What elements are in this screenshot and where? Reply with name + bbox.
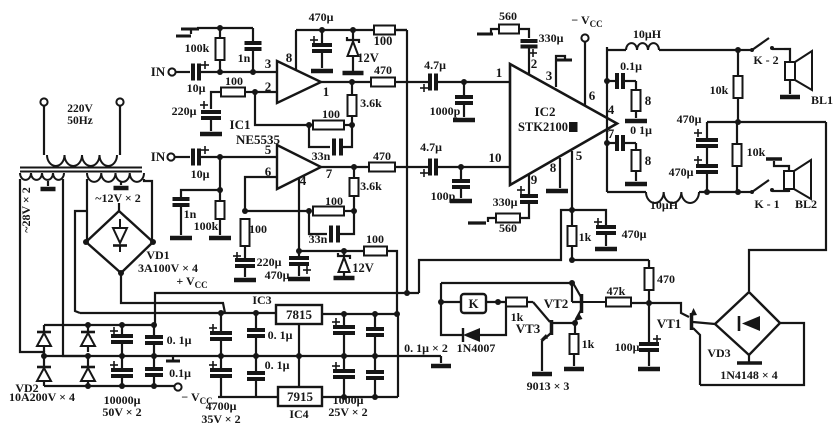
- rail VD2 plus: [44, 322, 157, 328]
- wire secondary1 center tap: [47, 181, 49, 186]
- svg-text:VT3: VT3: [516, 321, 541, 336]
- svg-text:3: 3: [265, 56, 272, 71]
- wire 10u2 to pin5: [201, 154, 277, 160]
- svg-text:1k: 1k: [579, 230, 592, 244]
- op-amp IC2 STK2100 triangle: [510, 64, 617, 185]
- wire relay node riser: [440, 283, 442, 302]
- label IC2: [535, 104, 556, 119]
- ground 8 bottom: [625, 182, 647, 187]
- label pin2 IC2: [531, 56, 538, 71]
- label pin3 U1A: [265, 56, 272, 71]
- svg-text:470μ: 470μ: [622, 227, 647, 241]
- svg-text:6: 6: [589, 88, 596, 103]
- ground 100p: [450, 199, 472, 204]
- wire supply rail ch2: [296, 248, 364, 254]
- label VT1: [657, 316, 682, 331]
- label pin8 IC2 with ground: [550, 158, 560, 188]
- svg-text:47k: 47k: [607, 284, 626, 298]
- label 4700u: [206, 399, 237, 413]
- svg-text:IC4: IC4: [289, 407, 308, 421]
- svg-text:12V: 12V: [352, 261, 374, 275]
- wire output bus vertical: [604, 47, 610, 192]
- wire supply ch2 to regulator: [387, 251, 397, 314]
- resistor 100 ch1 input: [212, 74, 255, 97]
- svg-text:470: 470: [374, 63, 392, 77]
- svg-text:1: 1: [496, 65, 503, 80]
- svg-text:10μH: 10μH: [650, 198, 679, 212]
- speaker BL2: [782, 160, 811, 199]
- wire VT2 to 47k: [583, 301, 606, 303]
- label pin1 U1A: [323, 84, 330, 99]
- svg-text:NE5535: NE5535: [236, 132, 281, 147]
- capacitor 330u ch1: [519, 29, 564, 75]
- capacitor 4700u lower: [209, 356, 232, 397]
- chassis ground mid rail: [166, 356, 180, 361]
- svg-text:IC3: IC3: [252, 293, 271, 307]
- svg-text:IN: IN: [151, 149, 166, 164]
- capacitor 1000p: [430, 82, 473, 118]
- resistor 470 vertical: [645, 260, 676, 303]
- capacitor 4700u upper: [209, 313, 232, 356]
- wire pin5 down: [571, 151, 573, 210]
- svg-text:IC1: IC1: [230, 117, 251, 132]
- wire 4.7u2 to pin10: [438, 164, 510, 170]
- wire output U1A: [321, 79, 371, 85]
- diode inside VD1: [113, 219, 127, 252]
- svg-text:10μ: 10μ: [191, 167, 210, 181]
- svg-text:330μ: 330μ: [493, 195, 518, 209]
- capacitor 220u ch1: [172, 92, 221, 131]
- label VT3: [516, 321, 541, 336]
- resistor 470 ch1: [371, 63, 395, 87]
- svg-text:4.7μ: 4.7μ: [424, 58, 446, 72]
- svg-text:50Hz: 50Hz: [67, 115, 93, 127]
- svg-text:3.6k: 3.6k: [360, 179, 382, 193]
- label VD1: [146, 248, 169, 262]
- label BL2: [795, 197, 817, 211]
- capacitor 10000u upper: [110, 325, 133, 359]
- ground 470u ch2: [288, 277, 310, 282]
- svg-text:9: 9: [531, 172, 538, 187]
- svg-text:~12V × 2: ~12V × 2: [95, 191, 141, 205]
- svg-text:0. 1μ: 0. 1μ: [167, 333, 192, 347]
- wire pin4 riser: [298, 178, 300, 251]
- inductor 10uH bottom: [607, 192, 738, 212]
- speaker BL1: [785, 51, 812, 94]
- ground VT3: [532, 372, 552, 377]
- ground 1k VT2: [564, 367, 584, 372]
- ground 220u ch1: [200, 132, 222, 137]
- label pin6 U1B: [265, 164, 272, 179]
- bridge VD3: [715, 292, 780, 355]
- svg-text:100: 100: [249, 222, 267, 236]
- svg-text:560: 560: [499, 9, 517, 23]
- capacitor 220u ch2: [233, 252, 282, 277]
- node pin5 rail: [569, 207, 575, 213]
- rail 7815 output: [322, 311, 400, 317]
- svg-text:0. 1μ × 2: 0. 1μ × 2: [404, 341, 448, 355]
- svg-text:4.7μ: 4.7μ: [420, 140, 442, 154]
- rail mid ground: [44, 353, 441, 359]
- label pin4 IC2: [608, 102, 615, 117]
- capacitor 10u ch1: [187, 61, 209, 95]
- resistor 1k VT2 emitter: [570, 334, 595, 366]
- svg-text:1000p: 1000p: [430, 104, 461, 118]
- svg-text:4: 4: [300, 173, 307, 188]
- svg-text:3.6k: 3.6k: [360, 96, 382, 110]
- wire 1k to VT3 base: [527, 302, 550, 322]
- svg-text:8: 8: [550, 160, 557, 175]
- capacitor 0.1u reg upper: [247, 313, 293, 356]
- wire IN1 to cap: [176, 71, 190, 73]
- resistor 100k ch1: [185, 25, 225, 72]
- node relay right: [495, 299, 501, 305]
- ground VD3 bottom: [737, 355, 762, 363]
- svg-text:100: 100: [225, 74, 243, 88]
- capacitor 10000u lower: [110, 356, 133, 386]
- capacitor 1000u upper: [332, 314, 355, 356]
- svg-text:0 1μ: 0 1μ: [630, 123, 652, 137]
- svg-text:50V × 2: 50V × 2: [102, 405, 141, 419]
- label pin7 U1B: [326, 166, 333, 181]
- wire feedback ch2: [242, 208, 357, 214]
- switch K-1: [738, 180, 782, 211]
- resistor 100 feedback ch2: [313, 194, 354, 216]
- capacitor 4.7u ch1: [420, 58, 446, 92]
- wire secondary2 right down: [144, 179, 152, 242]
- diode 1N4007: [457, 328, 496, 355]
- capacitor 470u ch1 supply: [309, 10, 334, 68]
- wire VD3 right loop: [700, 323, 804, 385]
- wire K-2 to BL1: [784, 49, 790, 62]
- wire +V feed from regulator: [419, 210, 572, 293]
- capacitor 470u pin5: [572, 210, 647, 246]
- svg-text:7915: 7915: [287, 389, 314, 404]
- wire supply rail ch1: [296, 27, 407, 33]
- rail VD2 minus: [44, 383, 174, 389]
- label pin3 IC2 with chassis ground: [546, 56, 572, 87]
- wire VD1 top stub: [118, 203, 120, 211]
- svg-text:10μH: 10μH: [633, 27, 662, 41]
- svg-text:2: 2: [531, 56, 538, 71]
- regulator 7915 box: [278, 387, 322, 406]
- label pin8 U1A: [286, 50, 293, 65]
- wire 10u to pin3: [201, 69, 277, 75]
- label pin4 U1B: [300, 173, 307, 188]
- label pin9 IC2: [531, 172, 538, 187]
- svg-text:8: 8: [645, 93, 652, 108]
- label VD3: [707, 346, 730, 360]
- resistor 3.6k ch1: [348, 82, 383, 125]
- ground secondary2 center tap: [114, 186, 129, 191]
- wire sense line right down: [749, 122, 826, 291]
- capacitor 33n ch1: [309, 125, 352, 163]
- resistor 100 supply ch1: [374, 26, 395, 49]
- svg-text:560: 560: [499, 221, 517, 235]
- zener 12V ch1: [347, 30, 379, 71]
- wire 7815 feed from secondary: [75, 211, 87, 313]
- svg-text:220μ: 220μ: [257, 255, 282, 269]
- label ~28V x 2: [19, 187, 33, 233]
- ground mid rail right: [404, 341, 451, 366]
- ground 470u pin5: [595, 247, 617, 252]
- wire secondary2 left down: [86, 179, 88, 242]
- wire output U1B: [321, 164, 369, 170]
- label 35V x 2: [201, 412, 240, 426]
- chassis ground 560 ch1: [477, 29, 499, 34]
- svg-text:1n: 1n: [238, 51, 251, 65]
- wire feedback ch1: [255, 92, 355, 128]
- capacitor 0.1u reg lower: [247, 356, 290, 397]
- ground pin8 IC2: [546, 189, 568, 194]
- svg-text:9013 × 3: 9013 × 3: [527, 379, 570, 393]
- label 9013x3: [527, 379, 570, 393]
- capacitor 0.1u bottom: [607, 123, 652, 151]
- transistor VT2: [573, 283, 583, 323]
- wire node to VT1 base: [649, 303, 689, 317]
- svg-text:470μ: 470μ: [677, 112, 702, 126]
- svg-text:BL2: BL2: [795, 197, 817, 211]
- svg-text:VT1: VT1: [657, 316, 682, 331]
- diode inside VD3: [739, 316, 760, 331]
- svg-text:470μ: 470μ: [309, 10, 334, 24]
- transformer primary winding: [47, 155, 117, 166]
- label pin5 U1B: [265, 142, 272, 157]
- label ~12V x 2: [95, 191, 141, 205]
- svg-text:220V: 220V: [67, 103, 93, 115]
- svg-text:8: 8: [286, 50, 293, 65]
- wire pin2 input: [252, 89, 277, 95]
- label 1000u: [333, 393, 364, 407]
- svg-text:7: 7: [608, 126, 615, 141]
- capacitor right col upper: [366, 314, 384, 356]
- svg-text:VD3: VD3: [707, 346, 730, 360]
- svg-text:470μ: 470μ: [265, 268, 290, 282]
- capacitor 100u: [615, 303, 661, 366]
- diode VD2a: [37, 325, 51, 352]
- svg-text:3: 3: [546, 68, 553, 83]
- wire 7815 out down: [397, 314, 399, 397]
- wire secondary1 left down: [20, 179, 44, 356]
- wire 47k to node: [631, 302, 649, 304]
- svg-text:0.1μ: 0.1μ: [169, 366, 191, 380]
- svg-text:K - 1: K - 1: [754, 197, 779, 211]
- svg-text:4700μ: 4700μ: [206, 399, 237, 413]
- svg-text:8: 8: [645, 153, 652, 168]
- svg-text:100: 100: [374, 34, 393, 48]
- wire feedback sense: [707, 121, 826, 123]
- chassis ground BL2: [766, 157, 782, 161]
- wire supply bus corner: [395, 29, 407, 31]
- label IC1 NE5535: [230, 117, 281, 147]
- svg-text:100μ: 100μ: [615, 340, 640, 354]
- wire secondary1 right down: [63, 179, 88, 356]
- resistor 10k upper: [710, 50, 743, 122]
- svg-text:10: 10: [489, 150, 502, 165]
- bridge VD1: [83, 211, 156, 276]
- ground 100k ch2: [209, 236, 231, 241]
- svg-text:7815: 7815: [286, 307, 313, 322]
- capacitor 470u series upper: [677, 112, 718, 164]
- svg-text:100: 100: [322, 107, 340, 121]
- relay K box: [441, 294, 506, 313]
- transformer T primary terminal left: [40, 98, 47, 105]
- svg-text:1N4148 × 4: 1N4148 × 4: [720, 368, 778, 382]
- wire IN2 to cap: [175, 156, 190, 158]
- resistor 100 vertical ch2: [241, 219, 268, 258]
- node mid rail speaker: [735, 119, 741, 125]
- resistor 100 feedback ch1: [309, 107, 352, 130]
- svg-text:4: 4: [608, 102, 615, 117]
- svg-text:220μ: 220μ: [172, 104, 197, 118]
- terminal IN channel2: [151, 149, 175, 164]
- transistor VT1: [690, 308, 715, 385]
- label 10A200V x 4: [9, 390, 75, 404]
- chassis ground 560 ch2: [468, 218, 496, 223]
- label 3A100V x 4: [138, 261, 198, 275]
- ground 1n ch2: [170, 236, 192, 241]
- svg-text:1k: 1k: [582, 337, 595, 351]
- svg-text:33n: 33n: [309, 232, 328, 246]
- resistor 560 ch2: [496, 214, 520, 236]
- transformer secondary winding ~28V x2: [20, 173, 64, 180]
- svg-text:35V × 2: 35V × 2: [201, 412, 240, 426]
- ground 8 top: [625, 119, 647, 124]
- svg-text:33n: 33n: [312, 149, 331, 163]
- label pin10 IC2: [489, 150, 502, 165]
- resistor 3.6k ch2: [350, 167, 383, 211]
- chassis ground top-left: [176, 29, 199, 36]
- svg-text:5: 5: [576, 148, 583, 163]
- transistor VT3: [540, 320, 575, 371]
- label VT2: [544, 296, 569, 311]
- terminal IN channel1: [151, 64, 176, 79]
- rail 7815 input: [80, 310, 276, 316]
- capacitor 4.7u ch2: [420, 140, 442, 177]
- svg-text:0. 1μ: 0. 1μ: [268, 328, 293, 342]
- resistor 10k lower: [733, 122, 766, 192]
- wire -Vcc to pin6: [584, 42, 586, 106]
- svg-text:IC2: IC2: [535, 104, 556, 119]
- ground 220u ch2: [234, 278, 256, 283]
- label pin7 IC2: [608, 126, 615, 141]
- transformer T primary terminal right: [116, 98, 123, 105]
- svg-text:10k: 10k: [747, 145, 766, 159]
- wire bus +V vertical: [406, 30, 408, 294]
- wire relay feed line: [441, 280, 575, 286]
- label VD2: [15, 381, 38, 395]
- wire primary left: [43, 106, 45, 155]
- svg-text:100: 100: [366, 232, 384, 246]
- capacitor 1000u lower: [332, 356, 355, 397]
- wire VT2 emitter node: [572, 320, 578, 334]
- label pin6 IC2: [589, 88, 596, 103]
- wire 4.7u1 to pin1: [438, 79, 510, 85]
- svg-text:1: 1: [323, 84, 330, 99]
- capacitor 0.1u lower left: [145, 356, 191, 386]
- switch K-2: [738, 38, 784, 67]
- svg-text:470: 470: [373, 149, 391, 163]
- node 1k bottom: [569, 257, 575, 263]
- resistor 1k pin5: [568, 210, 592, 260]
- wire VT2 base: [572, 283, 580, 302]
- ground secondary1 center tap: [41, 187, 56, 192]
- capacitor 470u series lower: [669, 156, 718, 192]
- svg-text:K: K: [468, 296, 479, 311]
- op-amp U1B triangle: [277, 145, 321, 189]
- wire 7815 7915 common: [298, 324, 300, 387]
- svg-text:100: 100: [325, 194, 343, 208]
- resistor 560 ch1: [499, 9, 519, 34]
- wire ground rail ch1 top: [197, 27, 253, 29]
- svg-text:BL1: BL1: [811, 93, 833, 107]
- svg-text:330μ: 330μ: [539, 31, 564, 45]
- op-amp U1A triangle: [277, 61, 321, 103]
- node bottom rail speaker: [704, 189, 741, 195]
- transformer core: [20, 168, 142, 172]
- regulator 7815 box: [276, 305, 322, 324]
- wire node ch2 down: [217, 157, 223, 201]
- ground zener ch2: [334, 276, 355, 281]
- diode VD2c: [81, 325, 95, 352]
- terminal -Vcc top: [571, 13, 602, 42]
- wire +supply to right: [155, 290, 419, 325]
- resistor 470 ch2: [369, 149, 395, 172]
- label STK2100: [518, 120, 578, 134]
- node relay: [438, 299, 444, 305]
- label BL1: [811, 93, 833, 107]
- inductor 10uH top: [607, 27, 738, 50]
- wire BL2 top: [774, 161, 789, 171]
- wire 470 to 4.7u ch1: [395, 81, 429, 83]
- wire pin8 riser: [295, 30, 297, 70]
- label pin1 IC2: [496, 65, 503, 80]
- terminal -Vcc bottom: [174, 383, 212, 406]
- svg-text:470: 470: [657, 272, 675, 286]
- resistor 8 top: [632, 81, 652, 118]
- label +Vcc: [176, 274, 207, 290]
- svg-text:K - 2: K - 2: [753, 53, 778, 67]
- svg-text:7: 7: [326, 166, 333, 181]
- svg-text:3A100V × 4: 3A100V × 4: [138, 261, 198, 275]
- svg-text:1N4007: 1N4007: [457, 341, 496, 355]
- ground 100u: [638, 367, 660, 372]
- diode VD2d: [81, 353, 95, 386]
- capacitor 470u ch2 supply: [265, 251, 311, 282]
- zener 12V ch2: [338, 251, 374, 276]
- capacitor 0.1u upper left: [145, 325, 192, 359]
- label 25V x 2: [328, 405, 367, 419]
- node top rail speaker: [735, 47, 741, 53]
- diode VD2b: [37, 353, 51, 386]
- ground zener ch1: [343, 71, 364, 76]
- ground 1000p: [453, 118, 475, 123]
- label IC4: [289, 407, 308, 421]
- diode 1N4007 loop: [441, 302, 506, 335]
- ground BL1: [780, 95, 800, 100]
- svg-text:VT2: VT2: [544, 296, 569, 311]
- svg-text:470μ: 470μ: [669, 165, 694, 179]
- svg-text:100k: 100k: [194, 219, 219, 233]
- svg-text:0. 1μ: 0. 1μ: [265, 358, 290, 372]
- label 50V x 2: [102, 405, 141, 419]
- svg-text:10μ: 10μ: [187, 81, 206, 95]
- label 220V 50Hz: [67, 103, 93, 127]
- transformer secondary winding ~12V x2: [87, 173, 144, 182]
- wire secondary2 center tap: [120, 181, 122, 185]
- label IC3: [252, 293, 271, 307]
- svg-text:IN: IN: [151, 64, 166, 79]
